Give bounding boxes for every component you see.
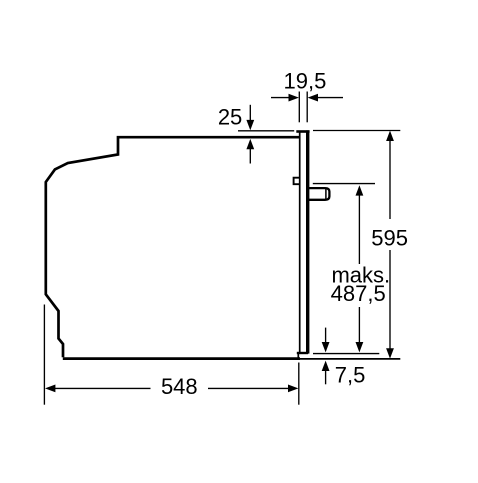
svg-text:548: 548	[161, 374, 198, 399]
svg-text:487,5: 487,5	[331, 281, 386, 306]
svg-text:7,5: 7,5	[335, 363, 366, 388]
svg-text:595: 595	[371, 226, 408, 251]
svg-text:25: 25	[218, 105, 242, 130]
svg-text:19,5: 19,5	[283, 68, 326, 93]
